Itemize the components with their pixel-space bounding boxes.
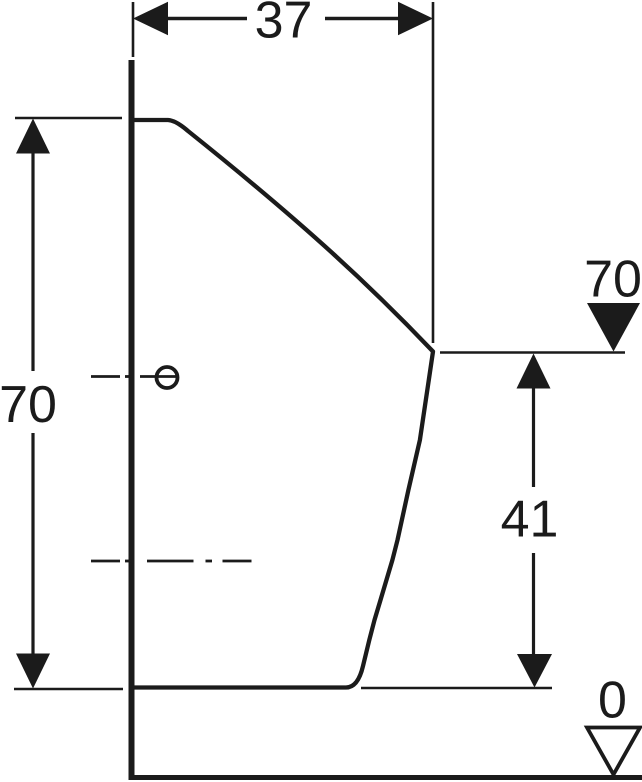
svg-text:41: 41 [501, 491, 559, 549]
svg-text:70: 70 [584, 251, 642, 309]
svg-text:37: 37 [255, 0, 313, 49]
svg-text:0: 0 [598, 672, 627, 730]
svg-text:70: 70 [0, 376, 57, 434]
